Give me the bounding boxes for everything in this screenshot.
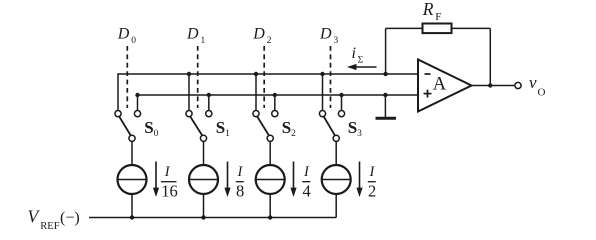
svg-text:0: 0 — [154, 129, 159, 139]
label S0 — [144, 118, 158, 139]
wire: ground bus to non-inverting input (second bus with S0 right drop) — [138, 95, 419, 110]
resistor RF body — [423, 24, 452, 34]
svg-text:v: v — [529, 73, 537, 92]
arrow: summing current i-sigma — [347, 64, 377, 70]
svg-text:16: 16 — [161, 182, 178, 201]
wire: S3 left contact drop — [322, 74, 324, 110]
value label I/8 — [236, 164, 244, 201]
svg-text:A: A — [433, 75, 447, 95]
node: junction ground on second bus — [383, 93, 387, 97]
node: junction S3 on top bus — [320, 72, 324, 76]
node: junction S2 on second bus — [273, 93, 277, 97]
control line D2 (dashed) — [263, 46, 265, 108]
svg-text:2: 2 — [368, 182, 376, 201]
arrow: current I/8 direction — [224, 162, 230, 198]
wire: S3 right contact drop — [341, 95, 343, 110]
wire: current source I/2 to bottom bus — [335, 194, 337, 218]
label S3 — [348, 118, 362, 139]
svg-text:S: S — [348, 118, 357, 137]
control line D0 (dashed) — [126, 46, 128, 108]
wire: current source I/8 to bottom bus — [203, 194, 205, 218]
control line D1 (dashed) — [197, 46, 199, 108]
svg-text:S: S — [144, 118, 153, 137]
label S2 — [282, 118, 296, 139]
svg-text:R: R — [422, 0, 434, 19]
svg-text:V: V — [28, 207, 41, 227]
wire: feedback left vertical to summing node — [385, 28, 387, 74]
switch S2 contacts and lever — [253, 111, 278, 142]
switch S1 contacts and lever — [186, 111, 212, 142]
value label I/2 — [368, 164, 376, 201]
wire: S3 common to current source — [335, 141, 337, 165]
switch S0 contacts and lever — [115, 111, 141, 142]
label vO — [529, 73, 546, 98]
svg-text:D: D — [117, 25, 130, 42]
label D1 — [186, 25, 206, 45]
arrow: current I/2 direction — [356, 162, 362, 198]
switch S3 contacts and lever — [319, 111, 344, 142]
svg-text:O: O — [538, 86, 546, 98]
svg-text:S: S — [216, 118, 225, 137]
terminal: output circle — [515, 82, 521, 88]
wire: current source I/16 to bottom bus — [131, 194, 133, 218]
ground — [376, 95, 397, 118]
wire: S1 right contact drop — [208, 95, 210, 110]
label D2 — [252, 25, 271, 45]
svg-text:i: i — [352, 45, 356, 62]
op-amp inverting input minus sign — [425, 73, 431, 75]
label D0 — [117, 25, 137, 45]
svg-text:3: 3 — [357, 129, 362, 139]
wire: S0 common to current source — [131, 141, 133, 165]
svg-text:2: 2 — [291, 129, 296, 139]
node: junction S1 on top bus — [187, 72, 191, 76]
wire: current source I/4 to bottom bus — [269, 194, 271, 218]
label D3 — [319, 25, 339, 45]
wire: S2 common to current source — [269, 141, 271, 165]
svg-text:D: D — [186, 25, 199, 42]
wire: feedback top left segment — [386, 27, 423, 29]
svg-text:D: D — [252, 25, 265, 42]
node: junction I/8 on bottom bus — [201, 215, 205, 219]
arrow: current I/16 direction — [153, 162, 159, 198]
current source I/2 — [322, 165, 351, 194]
arrow: current I/4 direction — [290, 162, 296, 198]
node: junction S1 on second bus — [207, 93, 211, 97]
wire: S2 left contact drop — [255, 74, 257, 110]
svg-text:I: I — [237, 164, 244, 180]
svg-text:1: 1 — [201, 36, 206, 46]
wire: feedback top right segment — [452, 27, 491, 29]
node: junction S2 on top bus — [254, 72, 258, 76]
node: junction I/4 on bottom bus — [268, 215, 272, 219]
svg-text:I: I — [164, 164, 171, 180]
svg-text:0: 0 — [131, 36, 136, 46]
wire: VREF bottom bus — [89, 217, 336, 219]
label VREF(-) — [28, 207, 80, 232]
svg-text:4: 4 — [303, 182, 311, 201]
value label I/4 — [302, 164, 310, 201]
label RF — [422, 0, 442, 23]
value label I/16 — [161, 164, 178, 201]
current source I/8 — [189, 165, 218, 194]
label i-sigma — [352, 45, 364, 65]
svg-text:2: 2 — [267, 36, 272, 46]
control line D3 (dashed) — [330, 46, 332, 108]
svg-text:8: 8 — [236, 182, 244, 201]
wire: S1 left contact drop — [188, 74, 190, 110]
svg-text:I: I — [369, 164, 376, 180]
svg-text:D: D — [319, 25, 332, 42]
svg-text:F: F — [435, 11, 441, 23]
current source I/4 — [256, 165, 285, 194]
svg-text:(−): (−) — [60, 210, 80, 227]
label S1 — [216, 118, 230, 139]
wire: S1 common to current source — [203, 141, 205, 165]
wire: summing bus to inverting input (top bus with S0 left drop) — [118, 74, 418, 110]
current source I/16 — [118, 165, 147, 194]
op-amp non-inverting input plus sign — [424, 90, 432, 98]
svg-text:3: 3 — [334, 36, 339, 46]
wire: S2 right contact drop — [274, 95, 276, 110]
svg-text:REF: REF — [40, 221, 59, 232]
node: junction I/16 on bottom bus — [130, 215, 134, 219]
wire: feedback right vertical to output — [489, 28, 491, 85]
node: junction feedback/summing node — [383, 72, 387, 76]
svg-text:S: S — [282, 118, 291, 137]
node: junction second bus left end — [135, 93, 139, 97]
op-amp U1 (A) triangle — [418, 60, 472, 112]
svg-text:I: I — [303, 164, 310, 180]
wire: op-amp output — [472, 85, 516, 87]
node: junction output — [488, 83, 492, 87]
svg-text:1: 1 — [225, 129, 230, 139]
node: junction S3 on second bus — [339, 93, 343, 97]
svg-text:Σ: Σ — [358, 56, 364, 66]
